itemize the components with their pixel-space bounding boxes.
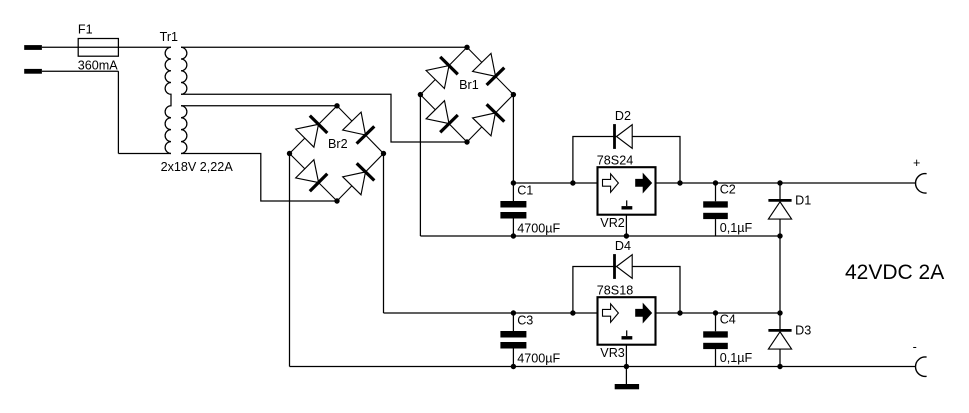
wire: input N (42, 70, 118, 72)
node Br1 DC minus (418, 92, 423, 97)
wire: Br2 plus down to rail 2 (383, 154, 385, 314)
wire: D3 top lead (779, 313, 781, 330)
voltage regulator 78S24 box (598, 167, 656, 215)
svg-text:78S18: 78S18 (597, 284, 633, 298)
node VR2 ground (624, 233, 629, 238)
node Br2 DC minus (287, 151, 292, 156)
wire: rail2 to VR3 input (384, 312, 598, 314)
transformer Tr1 secondary winding 1 (181, 47, 187, 94)
node D4 anode-side junction (570, 310, 575, 315)
transformer Tr1 primary winding (165, 47, 171, 153)
Br1 diode top-right (473, 53, 505, 85)
svg-text:78S24: 78S24 (597, 154, 633, 168)
wire: C1 bottom lead (512, 219, 514, 237)
wire: secondary1 top to Br1 AC1 (181, 46, 467, 48)
wire: input L to fuse/primary (42, 46, 171, 48)
output terminal plus (916, 174, 927, 193)
node Br1 AC bottom (464, 139, 469, 144)
transformer Tr1 secondary winding 2 (181, 106, 187, 154)
diode D3 (768, 330, 791, 349)
Br2 diode bottom-right (343, 163, 375, 195)
wire: rail1 C1 to VR2 input (513, 182, 597, 184)
svg-text:2x18V 2,22A: 2x18V 2,22A (161, 160, 234, 174)
wire: D1 bottom lead (779, 219, 781, 236)
svg-text:C4: C4 (720, 313, 736, 327)
capacitor C1 plates (500, 201, 526, 208)
wire: secondary2 top to Br2 AC1 (181, 105, 337, 107)
wire: VR3 output rail (657, 312, 781, 314)
node VR3 ground (624, 364, 629, 369)
svg-text:VR3: VR3 (600, 346, 625, 360)
wire: C2 bottom lead (715, 219, 717, 236)
78S24 input arrow (hollow) (603, 174, 619, 192)
node D2 cathode-side junction (677, 180, 682, 185)
diode D1 (768, 200, 791, 219)
output terminal minus (916, 357, 927, 376)
node C3 / rail2 (511, 310, 516, 315)
svg-text:C2: C2 (720, 183, 736, 197)
78S24 output arrow (filled) (636, 174, 652, 192)
svg-text:VR2: VR2 (600, 216, 625, 230)
fuse F1 (78, 39, 118, 57)
node D1 top (777, 180, 782, 185)
node Br1 DC plus (511, 92, 516, 97)
svg-text:-: - (913, 340, 917, 354)
wire: VR3 ground pin (625, 345, 627, 367)
wire: D3 bottom lead (779, 349, 781, 366)
Br2 diode top-left (296, 116, 328, 148)
svg-text:D2: D2 (615, 109, 631, 123)
node D3 top (777, 310, 782, 315)
wire: secondary1 bottom to Br1 AC2 (181, 94, 467, 142)
bridge rectifier Br2 frame (290, 106, 384, 201)
voltage regulator 78S18 box (598, 297, 656, 345)
wire: D1 top lead (779, 183, 781, 200)
wire: C1 top lead (512, 183, 514, 201)
svg-text:+: + (913, 156, 920, 170)
wire: VR2 ground pin (625, 215, 627, 236)
svg-text:D4: D4 (615, 239, 631, 253)
node Br2 AC top (334, 103, 339, 108)
node Br2 AC bottom (334, 198, 339, 203)
wire: D2 bypass loop (573, 137, 680, 184)
svg-text:0,1µF: 0,1µF (720, 221, 753, 235)
wire: Br1 minus down to gnd rail 1 (419, 95, 421, 236)
78S18 internal ground symbol (626, 330, 628, 336)
node C4 top (713, 310, 718, 315)
svg-text:4700µF: 4700µF (517, 352, 560, 366)
svg-text:Br2: Br2 (328, 137, 348, 151)
node C1 / rail1 (511, 180, 516, 185)
wire: C3 top lead (512, 313, 514, 331)
wire: to primary bottom (118, 153, 171, 155)
wire: Br2 minus down to gnd rail 2 (289, 154, 291, 367)
wire: gnd rail 2 to - terminal (290, 366, 916, 368)
wire: Br1 plus down to C1 (512, 95, 514, 183)
Br2 diode bottom-left (296, 160, 328, 192)
node Br1 AC top (464, 45, 469, 50)
node C1 bottom (511, 233, 516, 238)
wire: C2 top lead (715, 183, 717, 201)
wire: VR2 output rail to + terminal (657, 182, 917, 184)
Br1 diode top-left (426, 57, 458, 89)
Br1 diode bottom-right (473, 104, 505, 136)
svg-text:0,1µF: 0,1µF (720, 351, 753, 365)
svg-text:Tr1: Tr1 (160, 30, 178, 44)
78S18 output arrow (filled) (636, 304, 652, 322)
node D3 bottom (777, 364, 782, 369)
Br2 diode top-right (343, 112, 375, 144)
ground symbol (615, 384, 639, 389)
svg-text:D3: D3 (795, 324, 811, 338)
wire: C4 bottom lead (715, 349, 717, 366)
wire: D4 bypass loop (573, 267, 680, 314)
svg-text:F1: F1 (78, 23, 93, 37)
capacitor C3 plates (500, 331, 526, 338)
capacitor C2 plates (703, 201, 728, 207)
node Br2 DC plus (381, 151, 386, 156)
78S18 input arrow (hollow) (603, 304, 619, 322)
wire: secondary2 bottom to Br2 AC2 (181, 154, 337, 202)
AC input terminal top (24, 45, 42, 50)
svg-text:D1: D1 (795, 194, 811, 208)
svg-text:C3: C3 (517, 313, 533, 327)
svg-text:C1: C1 (517, 183, 533, 197)
wire: C4 top lead (715, 313, 717, 331)
capacitor C4 plates (703, 331, 728, 337)
wire: C3 bottom lead (512, 349, 514, 367)
78S24 internal ground symbol (626, 200, 628, 206)
node C3 bottom (511, 364, 516, 369)
bridge rectifier Br1 frame (420, 47, 513, 142)
node C2 top (713, 180, 718, 185)
Br1 diode bottom-left (426, 101, 458, 133)
wire: series link rail1 gnd to rail2 plus (779, 236, 781, 313)
wire: input N vertical (117, 71, 119, 153)
AC input terminal bottom (24, 69, 42, 74)
wire: VR3 ground to earth symbol (625, 367, 627, 385)
svg-text:Br1: Br1 (459, 78, 479, 92)
node D2 anode-side junction (570, 180, 575, 185)
svg-text:42VDC 2A: 42VDC 2A (845, 261, 944, 284)
svg-text:4700µF: 4700µF (517, 222, 560, 236)
diode D4 (615, 254, 633, 279)
wire: gnd rail 1 (420, 235, 780, 237)
node D1 bottom (777, 233, 782, 238)
node D4 cathode-side junction (677, 310, 682, 315)
diode D2 (615, 124, 633, 149)
